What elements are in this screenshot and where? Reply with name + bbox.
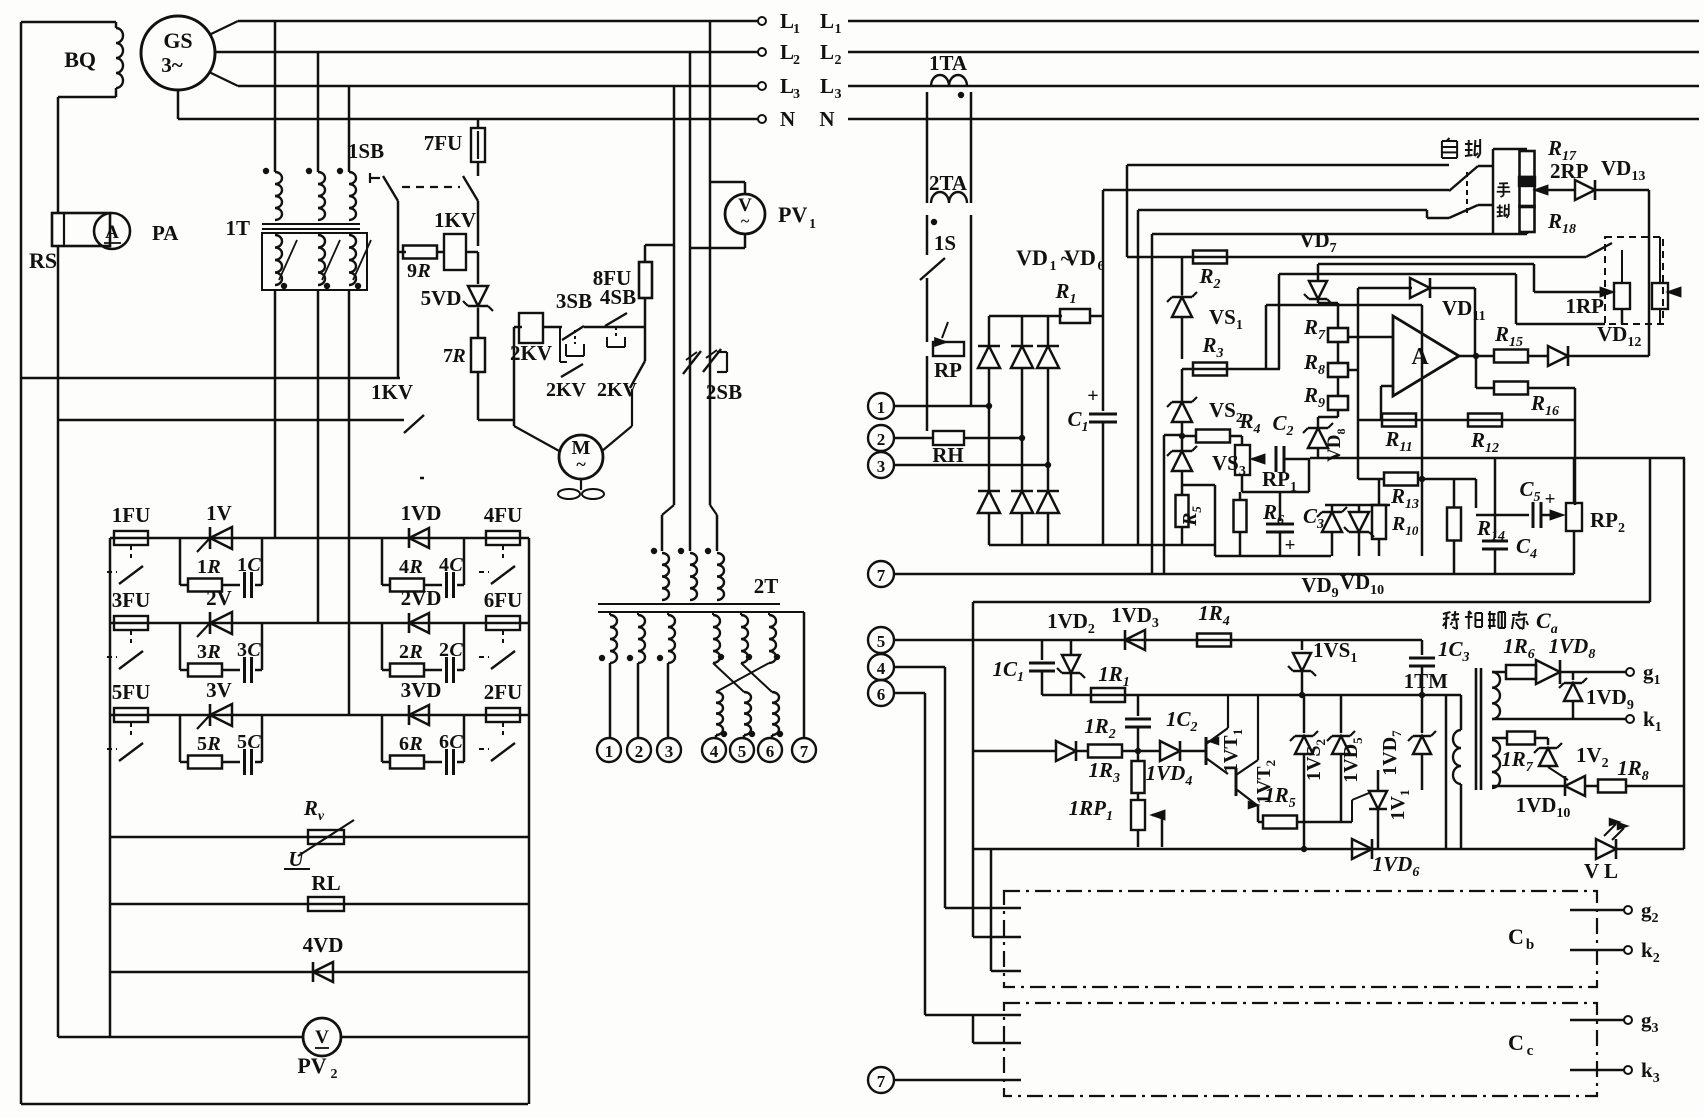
diode 1VD6: [1352, 839, 1372, 859]
svg-text:4: 4: [399, 556, 409, 578]
wire RP1 bottom: [1241, 475, 1244, 492]
wire n4: [894, 666, 945, 669]
terminal L1: [758, 17, 766, 25]
svg-text:1RP: 1RP: [1566, 294, 1605, 318]
transducer coil BQ: [116, 28, 123, 88]
zener 1VD5: [1340, 695, 1343, 733]
potentiometer RP: [933, 342, 964, 356]
node 4: [702, 738, 726, 762]
svg-text:2V: 2V: [206, 586, 232, 610]
rectifier bridge diodes: [988, 316, 991, 345]
zener VS3: [1181, 436, 1184, 450]
wire L1 drop mid: [709, 21, 712, 505]
1TM secondary top: [1492, 672, 1500, 719]
svg-text:1TA: 1TA: [929, 51, 968, 75]
svg-text:1V: 1V: [206, 501, 232, 525]
wire GS L1: [209, 21, 238, 35]
node 6 left: [868, 680, 894, 706]
wire VD7 net: [1127, 256, 1586, 259]
svg-text:6: 6: [439, 731, 449, 753]
potentiometer RP1: [1230, 435, 1242, 438]
svg-text:3SB: 3SB: [556, 289, 592, 313]
fuse 6FU: [486, 616, 520, 630]
svg-text:1: 1: [877, 398, 886, 417]
voltmeter PV2: [58, 1036, 528, 1039]
wire VD12 riser: [1648, 190, 1651, 356]
fuse 3FU: [114, 616, 148, 630]
wire 1RP feed: [1318, 263, 1534, 266]
label manual: [1497, 183, 1511, 197]
switch under 4FU: [502, 546, 504, 562]
wire 2KV left drop: [514, 326, 522, 329]
svg-text:3: 3: [665, 742, 674, 761]
relay coil 2KV: [519, 313, 543, 343]
terminal N: [758, 115, 766, 123]
svg-text:4FU: 4FU: [484, 503, 523, 527]
svg-text:3: 3: [835, 87, 842, 102]
rectifier bridge top rail: [989, 315, 1062, 318]
svg-text:1KV: 1KV: [434, 208, 476, 232]
svg-text:C: C: [247, 554, 261, 576]
svg-text:1TM: 1TM: [1404, 669, 1449, 693]
svg-text:2RP: 2RP: [1550, 159, 1589, 183]
svg-text:RS: RS: [29, 248, 57, 273]
wire node riser: [1163, 435, 1166, 574]
fuse 5FU: [114, 708, 148, 722]
node 4 left: [868, 654, 894, 680]
wire x991: [990, 849, 993, 971]
wire signal y751: [973, 750, 1056, 753]
switch 1KV blade: [404, 415, 424, 433]
resistor R5: [1176, 495, 1189, 527]
resistor R10: [1372, 505, 1386, 539]
label phase trigger Ca: [1443, 611, 1459, 629]
motor M: [514, 426, 561, 452]
wire trunk switches: [1492, 149, 1495, 234]
svg-text:C: C: [1508, 1030, 1524, 1055]
svg-text:C: C: [449, 639, 463, 661]
svg-text:1: 1: [1050, 259, 1057, 274]
diode 4VD: [110, 971, 529, 974]
svg-text:2: 2: [331, 1067, 338, 1082]
svg-text:R: R: [416, 260, 430, 282]
svg-text:+: +: [1285, 535, 1296, 556]
wire R16 riser: [1574, 388, 1577, 505]
svg-text:5FU: 5FU: [112, 680, 151, 704]
wire n5: [894, 639, 1422, 642]
ammeter PA: [94, 213, 130, 249]
svg-text:1VD9: 1VD9: [1586, 685, 1634, 713]
node 3: [657, 738, 681, 762]
wire amp inputs: [1348, 336, 1393, 339]
node 2 right: [868, 425, 894, 451]
wire trigger left: [972, 602, 975, 937]
zener VS2: [1181, 369, 1184, 402]
wire row 2: [110, 622, 529, 625]
svg-text:BQ: BQ: [64, 47, 96, 72]
svg-text:1T: 1T: [225, 216, 250, 240]
svg-text:6FU: 6FU: [484, 588, 523, 612]
box Cb: [1004, 891, 1597, 987]
dashed box 1RP: [1605, 237, 1663, 324]
svg-text:PA: PA: [152, 221, 179, 245]
wire node7 rail: [868, 561, 894, 587]
diode in: [1056, 741, 1076, 761]
wire BQ to RS: [58, 96, 116, 99]
wire R13 riser: [1475, 479, 1478, 508]
svg-text:2: 2: [835, 53, 842, 68]
resistor R14: [1453, 479, 1456, 508]
snubber 3R: [381, 715, 384, 762]
snubber 3L: [179, 715, 182, 762]
svg-text:R: R: [206, 641, 220, 663]
diode 1VD: [409, 528, 429, 548]
wire block left edge: [109, 538, 112, 1037]
svg-text:2KV: 2KV: [546, 379, 587, 401]
wire block right edge: [528, 538, 531, 1104]
transformer 2T secondary star: [609, 612, 611, 615]
svg-text:RL: RL: [311, 871, 340, 895]
wire row 1: [110, 537, 529, 540]
terminal g1: [1626, 668, 1634, 676]
wire phase drop c: [348, 86, 351, 172]
resistor R2: [1193, 251, 1227, 264]
svg-text:PV: PV: [778, 202, 807, 227]
diode 2VD: [409, 613, 429, 633]
svg-text:R: R: [408, 556, 422, 578]
svg-text:+: +: [1087, 385, 1098, 407]
transformer 1T primary: [275, 172, 282, 220]
fuse 2FU: [486, 708, 520, 722]
svg-text:6: 6: [766, 742, 775, 761]
diode 1VD7 dev: [1421, 695, 1424, 733]
wire 1T secondary drops: [274, 290, 277, 538]
wire long y458: [1310, 457, 1685, 460]
diode VD10: [1349, 512, 1369, 532]
svg-text:1SB: 1SB: [348, 139, 384, 163]
terminal g2: [1570, 909, 1624, 912]
thyristor 2V: [210, 612, 232, 634]
svg-text:1VD: 1VD: [401, 501, 442, 525]
svg-text:1: 1: [793, 22, 800, 37]
node 7 bottom: [868, 1067, 894, 1093]
wire bottom y849: [973, 848, 1596, 851]
switch under 5FU: [130, 723, 132, 739]
wire stub cb3: [991, 970, 1021, 973]
switch under 2FU: [502, 723, 504, 739]
wire rail2: [1215, 555, 1331, 558]
resistor 9R: [398, 251, 406, 254]
terminal L2: [758, 48, 766, 56]
wire stub cb2: [973, 936, 1021, 939]
switch auto: [1449, 166, 1478, 191]
switch 2SB: [683, 351, 701, 374]
svg-text:A: A: [1411, 344, 1429, 370]
diode VD11: [1358, 287, 1412, 290]
wire R3 risers: [1265, 305, 1268, 369]
resistor RH: [933, 431, 964, 445]
svg-text:U: U: [288, 847, 305, 871]
diode VD9: [1322, 512, 1342, 532]
svg-text:1S: 1S: [934, 231, 956, 255]
svg-text:1VD6: 1VD6: [1373, 852, 1420, 880]
switch under 3FU: [130, 631, 132, 647]
wire GS N: [177, 90, 180, 119]
resistor R13: [1358, 478, 1384, 481]
svg-text:2: 2: [399, 641, 409, 663]
thyristor 1V1: [1377, 770, 1380, 790]
wire L2 drop mid: [689, 52, 692, 505]
svg-text:C: C: [247, 731, 261, 753]
svg-text:L: L: [780, 9, 794, 33]
svg-text:1VT1: 1VT1: [1220, 729, 1245, 773]
wire phase drop b: [317, 52, 320, 172]
amp output: [1459, 355, 1494, 358]
wire 7FU branch down: [477, 201, 480, 246]
svg-text:R: R: [451, 345, 465, 367]
svg-text:8FU: 8FU: [593, 266, 632, 290]
diode 3VD: [409, 705, 429, 725]
svg-text:R: R: [408, 641, 422, 663]
svg-text:5VD: 5VD: [421, 286, 462, 310]
transistor 1VT1: [1205, 737, 1208, 765]
wire row y420 1KV contact: [58, 419, 404, 422]
wire GS L2: [215, 51, 762, 54]
svg-text:4: 4: [439, 554, 449, 576]
box Cc: [1004, 1003, 1597, 1096]
svg-text:1VD8: 1VD8: [1549, 634, 1596, 662]
LED VL: [1596, 839, 1616, 859]
svg-text:N: N: [819, 107, 834, 131]
node 6: [758, 738, 782, 762]
snubber 1R: [381, 538, 384, 585]
svg-text:4VD: 4VD: [303, 933, 344, 957]
wire loop A: [1127, 164, 1449, 167]
svg-text:R: R: [408, 733, 422, 755]
snubber 2R: [381, 623, 384, 670]
contact 2KV right: [630, 361, 645, 388]
resistor R11: [1382, 414, 1416, 427]
svg-text:L: L: [820, 9, 834, 33]
node 3 right: [868, 452, 894, 478]
svg-text:VD: VD: [1016, 245, 1048, 270]
wire R5 bypass: [1183, 484, 1215, 487]
svg-text:6: 6: [399, 733, 409, 755]
transformer 2T primary: [662, 505, 674, 515]
zener VS1: [1181, 257, 1184, 295]
svg-text:L: L: [820, 40, 834, 64]
svg-text:2T: 2T: [754, 574, 779, 598]
relay coil 1KV: [437, 251, 444, 254]
varistor Rv: [110, 836, 529, 839]
wire loop D: [1152, 233, 1527, 236]
svg-text:R: R: [206, 733, 220, 755]
transformer 1T secondary: [262, 233, 367, 290]
resistor 1R7: [1492, 737, 1507, 740]
svg-text:5: 5: [197, 733, 207, 755]
svg-text:6: 6: [877, 685, 886, 704]
svg-text:2: 2: [439, 639, 449, 661]
voltmeter PV1: [725, 194, 765, 234]
wire rp2 top link: [1573, 458, 1576, 488]
wire 1SB down: [397, 201, 400, 378]
shunt RS: [52, 213, 110, 246]
svg-text:2FU: 2FU: [484, 680, 523, 704]
wire trigger top border: [973, 601, 1650, 604]
svg-text:7: 7: [877, 566, 886, 585]
snubber 2L: [179, 623, 182, 670]
wire loop C: [1138, 209, 1427, 212]
wire R3 net: [1182, 368, 1280, 371]
generator GS: [141, 16, 215, 90]
node 5: [730, 738, 754, 762]
zener 1VD9: [1572, 672, 1575, 680]
svg-text:1: 1: [809, 217, 816, 232]
wire x1446: [1445, 695, 1448, 849]
thyristor 1V2: [1565, 776, 1585, 796]
terminal k3: [1570, 1069, 1624, 1072]
svg-text:2SB: 2SB: [706, 380, 742, 404]
svg-text:3: 3: [237, 639, 247, 661]
svg-text:3FU: 3FU: [112, 588, 151, 612]
resistor R12: [1468, 414, 1502, 427]
svg-text:1VD3: 1VD3: [1111, 603, 1159, 631]
resistor R16: [1475, 356, 1478, 388]
svg-text:~: ~: [741, 213, 750, 230]
svg-text:V L: V L: [1584, 859, 1618, 883]
1TM secondary bottom: [1492, 740, 1500, 788]
svg-text:C: C: [247, 639, 261, 661]
svg-text:3VD: 3VD: [401, 678, 442, 702]
svg-text:c: c: [1527, 1043, 1534, 1059]
svg-text:A: A: [105, 222, 119, 243]
resistor R6: [1239, 492, 1242, 500]
zener 1V2g: [1547, 738, 1550, 745]
svg-text:GS: GS: [163, 28, 192, 53]
wire GS L3: [209, 72, 238, 86]
svg-text:L: L: [780, 40, 794, 64]
svg-text:C: C: [1508, 924, 1524, 949]
wire x973 lower: [972, 1015, 975, 1043]
terminal k2: [1570, 949, 1624, 952]
switch under 1FU: [130, 546, 132, 562]
svg-text:1FU: 1FU: [112, 503, 151, 527]
svg-text:3: 3: [197, 641, 207, 663]
terminal k1: [1492, 718, 1626, 721]
node 5 left: [868, 627, 894, 653]
node 7: [792, 738, 816, 762]
diode 5VD: [477, 252, 480, 284]
svg-text:L: L: [780, 74, 794, 98]
svg-text:1: 1: [835, 22, 842, 37]
terminal g3: [1570, 1019, 1624, 1022]
svg-text:2KV: 2KV: [510, 341, 552, 365]
wire row 3: [110, 714, 529, 717]
svg-text:L: L: [820, 74, 834, 98]
svg-text:9: 9: [407, 260, 417, 282]
svg-text:1: 1: [197, 556, 207, 578]
resistor R18: [1520, 206, 1535, 232]
wire BQ top: [21, 21, 116, 24]
node 1: [597, 738, 621, 762]
resistor R3: [1193, 363, 1227, 376]
svg-text:5: 5: [877, 632, 886, 651]
svg-text:PV: PV: [297, 1053, 326, 1078]
svg-text:3: 3: [793, 87, 800, 102]
wire left border: [20, 22, 23, 1104]
svg-text:2: 2: [877, 430, 886, 449]
svg-text:1VD2: 1VD2: [1047, 609, 1095, 637]
thyristor 1V: [210, 527, 232, 549]
wire L3 drop mid: [673, 86, 676, 505]
svg-text:1KV: 1KV: [371, 380, 413, 404]
wire n7 bottom: [894, 1079, 1021, 1082]
svg-text:3V: 3V: [206, 678, 232, 702]
svg-text:5: 5: [237, 731, 247, 753]
rectifier bridge bottom rail: [989, 544, 1215, 547]
node 2: [627, 738, 651, 762]
svg-text:C: C: [449, 731, 463, 753]
diode VD7 device: [1317, 264, 1320, 281]
thyristor 3V: [210, 704, 232, 726]
zener 1VS2: [1303, 695, 1306, 733]
wire row y378: [21, 377, 400, 380]
transformer 2T secondary bus: [598, 611, 804, 613]
svg-text:+: +: [1545, 489, 1556, 510]
svg-text:7: 7: [877, 1072, 886, 1091]
switch 1RP select: [1586, 243, 1612, 257]
resistor RL: [110, 903, 529, 906]
potentiometer 2RP: [1520, 185, 1535, 207]
resistor R17: [1520, 151, 1535, 177]
svg-text:3: 3: [877, 457, 886, 476]
svg-text:1VD4: 1VD4: [1146, 761, 1193, 789]
capacitor C4: [1494, 458, 1497, 538]
wire contactor row: [542, 326, 562, 329]
switch manual: [1449, 205, 1478, 218]
svg-text:7FU: 7FU: [424, 131, 463, 155]
wire RS down: [57, 246, 60, 1037]
wire feedback R11 R12: [1358, 419, 1575, 422]
svg-text:3~: 3~: [161, 53, 183, 77]
svg-text:2VD: 2VD: [401, 586, 442, 610]
terminal L3: [758, 82, 766, 90]
wire stub cc2: [973, 1042, 1021, 1045]
potentiometer RP2: [1566, 503, 1582, 531]
wire right drop: [1683, 458, 1686, 849]
svg-text:5: 5: [738, 742, 747, 761]
transistor 1VT2: [1235, 768, 1238, 796]
wire node y695: [1042, 694, 1461, 697]
wire 2KV feed: [478, 419, 514, 422]
resistor 7R: [471, 338, 485, 372]
svg-text:1: 1: [237, 554, 247, 576]
fuse 1FU: [114, 531, 148, 545]
switch under 6FU: [502, 631, 504, 647]
label auto: [1442, 138, 1457, 158]
svg-text:R: R: [206, 556, 220, 578]
svg-text:2: 2: [635, 742, 644, 761]
svg-text:2TA: 2TA: [929, 171, 968, 195]
snubber 1L: [179, 538, 182, 585]
fuse 4FU: [486, 531, 520, 545]
contact 2KV left: [561, 364, 583, 377]
wire loop B: [1103, 189, 1449, 192]
svg-text:V: V: [315, 1027, 329, 1048]
node 1 right: [868, 393, 894, 419]
wire stub cc1: [925, 1014, 1021, 1017]
svg-text:1: 1: [605, 742, 614, 761]
